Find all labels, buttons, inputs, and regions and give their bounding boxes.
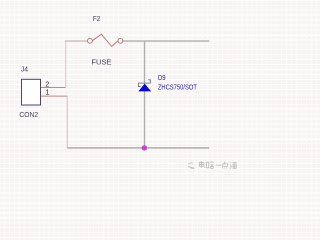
- svg-text:FUSE: FUSE: [91, 57, 111, 66]
- svg-text:F2: F2: [93, 14, 101, 23]
- svg-text:D9: D9: [158, 73, 166, 82]
- svg-text:ZHCS750/SOT: ZHCS750/SOT: [158, 82, 197, 91]
- svg-text:1: 1: [46, 88, 50, 97]
- svg-text:J4: J4: [21, 64, 28, 73]
- svg-text:CON2: CON2: [19, 110, 38, 119]
